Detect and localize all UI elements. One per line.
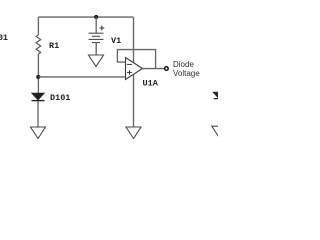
ground (left) (31, 127, 46, 139)
ground (right, clipped) (212, 126, 227, 138)
wire top rail (38, 16, 133, 18)
wire node B to battery (95, 17, 97, 33)
svg-text:U1A: U1A (143, 79, 159, 89)
wire R1 to node A (37, 54, 39, 93)
wire node A to op-amp + input (38, 76, 125, 78)
diode D101 (32, 93, 45, 101)
wire V+ rail drop (133, 17, 135, 62)
wire D101 to ground (37, 101, 39, 127)
svg-text:Voltage: Voltage (173, 69, 200, 78)
ground (op-amp) (126, 127, 141, 139)
svg-text:Diode: Diode (173, 60, 194, 69)
node B junction dot (battery tap) (94, 15, 98, 19)
ground (battery) (89, 55, 104, 67)
svg-text:D101: D101 (50, 93, 70, 103)
wire feedback loop (117, 50, 155, 69)
wire op-amp output (143, 68, 165, 70)
svg-text:01: 01 (0, 33, 8, 43)
wire battery to ground (95, 43, 97, 55)
svg-text:R1: R1 (49, 41, 59, 51)
op-amp U1A (126, 58, 143, 80)
resistor R1 (36, 35, 41, 54)
diode (right, clipped) (213, 92, 226, 99)
svg-text:V1: V1 (111, 36, 121, 46)
battery V1 (89, 26, 105, 43)
port circle (Diode Voltage) (165, 67, 169, 71)
wire V- to ground (133, 75, 135, 128)
wire left drop to R1 (37, 17, 39, 35)
node A junction dot (36, 75, 40, 79)
